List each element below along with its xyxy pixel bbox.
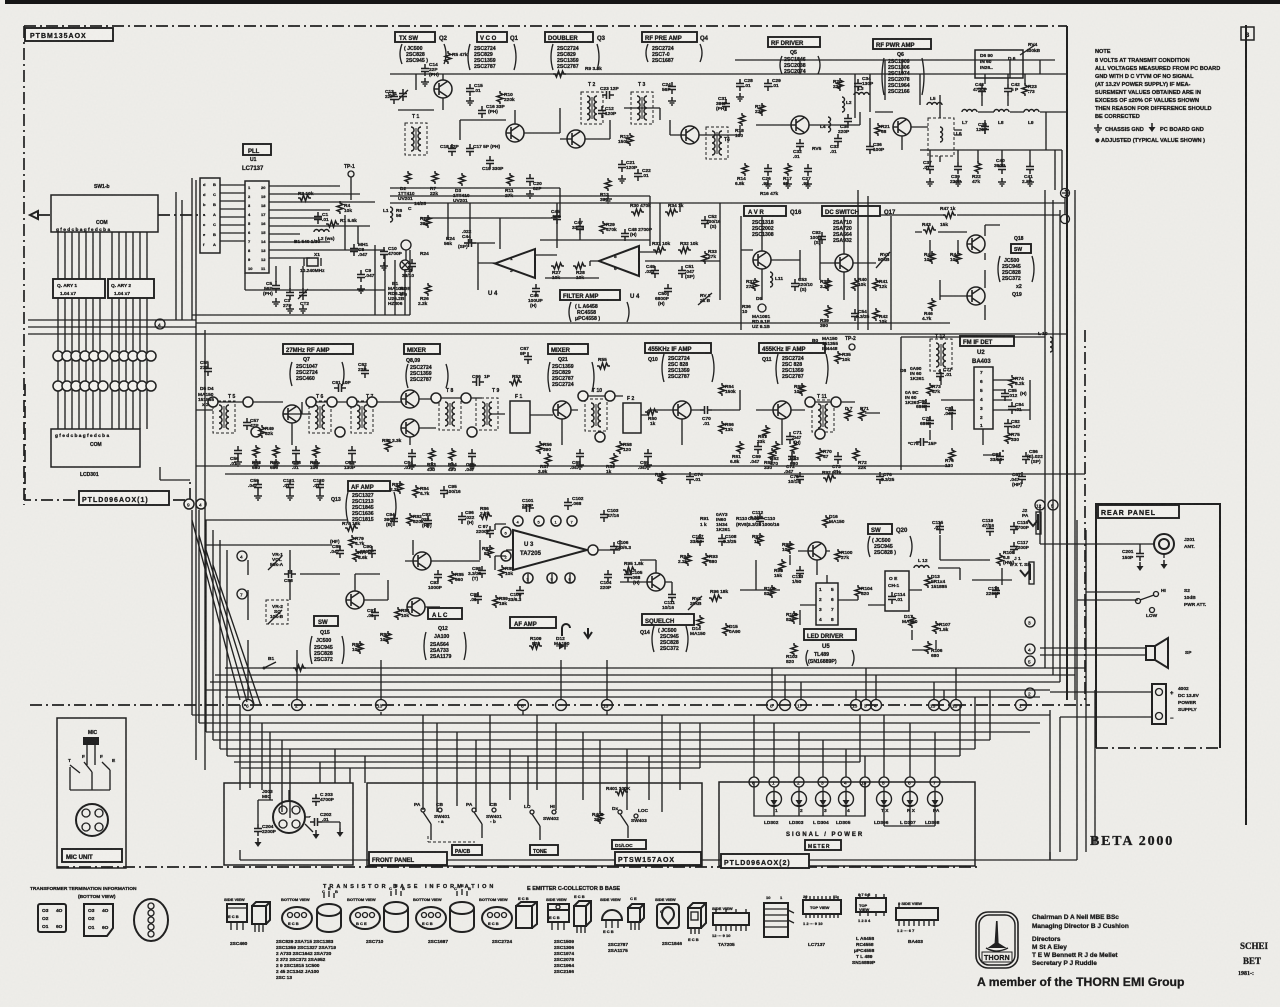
R70 47: [817, 448, 823, 461]
C22 .01: [634, 169, 642, 181]
C204 2200P: [254, 824, 262, 836]
U3 pin 3: [523, 573, 533, 583]
transistor Q17: [835, 254, 853, 272]
SW401-a switch: [423, 812, 431, 840]
R60 1k: [645, 409, 658, 415]
MIXER label box: [404, 344, 440, 354]
transformer T10: [585, 399, 607, 431]
C83 33/16: [996, 452, 1004, 464]
R43 15k: [923, 227, 936, 233]
transformer T2: [581, 92, 603, 124]
ground row top: [421, 78, 429, 86]
L11 coil: [770, 272, 773, 287]
S2 labels: [1184, 588, 1206, 608]
D7 diode: [845, 408, 851, 421]
transformer T9: [476, 398, 498, 430]
R58 120: [617, 441, 623, 454]
FILTER AMP parts list: [575, 304, 600, 322]
D12 MA150: [556, 643, 568, 650]
MIC UNIT label box: [62, 849, 122, 862]
C85 .012: [1001, 389, 1009, 401]
C49 .033: [651, 266, 659, 278]
U3 pin 1: [551, 516, 561, 526]
C52 100/16: [701, 216, 709, 228]
D15 0A90: [723, 623, 729, 636]
wires to right bus: [760, 197, 1065, 215]
C103 47/16: [600, 510, 608, 522]
SW1-b section line: [191, 178, 193, 320]
C55 27P: [204, 364, 212, 376]
C88 cap: [284, 570, 296, 578]
mic switch contacts: [68, 754, 116, 764]
J003 connector circle: [273, 801, 305, 833]
L2 coil: [314, 230, 329, 233]
IC U2 body: [974, 367, 993, 429]
RF PWR AMP stage label box: [873, 39, 931, 49]
node 5b circle: [1048, 500, 1058, 510]
C31 390P: [722, 99, 730, 111]
R1 5.6k: [326, 221, 339, 227]
pkg DIP16 side: [713, 913, 749, 925]
R107 1.5k: [933, 621, 939, 634]
pkg TO220 3d: [574, 901, 591, 926]
bus node 13c: [851, 700, 862, 711]
R402 39k: [597, 811, 603, 824]
mic connector circle: [76, 804, 108, 836]
J003 connector box: [224, 783, 353, 865]
pkg can 3: [450, 902, 474, 914]
C34 130P: [854, 79, 862, 91]
C14 22P: [421, 64, 429, 76]
af strip wiring: [205, 520, 1012, 650]
R26 2.2k: [425, 283, 431, 296]
L12 coil: [914, 566, 929, 569]
U3 pin 2: [501, 551, 511, 561]
C67 9P: [524, 352, 532, 364]
filter amp wiring: [464, 203, 720, 300]
U3 pin 4: [513, 516, 523, 526]
VR-1 volume pot: [270, 552, 284, 568]
S2 switch arm: [1140, 595, 1154, 600]
transistor Q21: [553, 401, 571, 419]
TX SW parts list: [404, 46, 428, 64]
LED LD306: [877, 792, 892, 807]
sheet corner box B: [1241, 27, 1254, 40]
TX SW stage label box: [395, 32, 435, 42]
C114 .01: [888, 592, 896, 604]
C99 .01: [474, 592, 482, 604]
transistor Q8: [401, 390, 419, 408]
R90 47: [659, 471, 665, 484]
C118 2200P: [992, 586, 1000, 598]
R82 820k: [407, 513, 413, 526]
C5 56P: [272, 281, 280, 293]
C47 33/16: [576, 222, 584, 234]
PLL input connector box: [200, 178, 220, 253]
C80 680P: [922, 399, 930, 411]
C73 .01: [834, 452, 842, 464]
L5 coil: [927, 103, 942, 106]
SW401-b switch: [474, 812, 482, 838]
harness fan diagonals: [192, 520, 261, 706]
R64 150k: [719, 383, 725, 396]
R66 13k: [719, 421, 725, 434]
pin 10 xfmr: [461, 393, 471, 403]
PLL label box: [243, 144, 271, 155]
L10 coil right: [1050, 337, 1053, 352]
microphone element: [83, 737, 99, 745]
C106 220/6.3: [610, 542, 618, 554]
jack stem: [1130, 544, 1164, 558]
j003 grounds: [255, 838, 262, 847]
Q21 parts list: [552, 357, 574, 388]
transformer T12: [930, 339, 952, 371]
Q10 parts list: [648, 356, 690, 380]
FRONT PANEL box: [367, 783, 702, 866]
RF DRIVER stage label box: [768, 37, 820, 47]
C42 5P: [1004, 84, 1012, 96]
SW label small box: [1011, 244, 1031, 253]
C46 100UP: [532, 284, 540, 296]
R22 47k: [975, 161, 981, 174]
led position labels: [775, 808, 940, 814]
wire harness horizontals: [192, 715, 1050, 768]
C8 .047: [350, 244, 358, 256]
CT1 trimmer: [398, 90, 408, 100]
pkg 2SC460 3d: [252, 902, 270, 924]
C108 3.3/25: [718, 534, 726, 546]
FRONT PANEL label box: [369, 852, 447, 865]
C91 .01: [371, 608, 379, 620]
C1 .01: [314, 212, 322, 224]
R23: [1022, 83, 1028, 96]
C70 .01: [700, 406, 712, 414]
crystal X1: [307, 258, 318, 266]
R98 15k: [779, 559, 785, 572]
VCO stage label box: [477, 32, 507, 42]
meter node 3: [818, 777, 828, 787]
Q15 parts list: [314, 630, 333, 663]
R52 3.3k: [385, 439, 391, 452]
power supply labels: [1178, 686, 1200, 713]
R94 2.2k: [685, 553, 691, 566]
D16 MA150: [823, 515, 829, 528]
L3 coil: [854, 93, 869, 96]
C111 10/16: [668, 590, 676, 602]
right bus connector node a: [1061, 189, 1070, 198]
node circle left a: [237, 551, 247, 561]
SW1-b switch box: [51, 195, 158, 232]
AVR label box: [744, 206, 786, 216]
R20 220: [837, 78, 843, 91]
j003 wiring: [258, 790, 340, 832]
C119 47/16: [986, 524, 994, 536]
harness verticals front panel: [423, 715, 680, 812]
DOUBLER parts list: [557, 46, 579, 70]
D9 zener: [758, 304, 766, 312]
D17 MA150: [909, 615, 915, 628]
meter node 7: [930, 777, 940, 787]
xfmr bottom view oval: [134, 899, 168, 941]
transistor Q3: [567, 130, 585, 148]
R4 10k: [337, 201, 343, 214]
ALC label box: [428, 608, 462, 619]
bus drops from circuits: [248, 560, 956, 715]
C29 .01: [764, 79, 772, 91]
B0 MA150 labels: [812, 336, 838, 352]
bus node 4: [871, 700, 882, 711]
Q.ARY 1 array box: [53, 279, 105, 298]
pin 8 xfmr: [335, 427, 345, 437]
bus node 10: [951, 700, 962, 711]
main schematic frame top edge: [24, 25, 1067, 27]
D14 MA150: [697, 615, 703, 628]
Q12 parts list: [430, 626, 451, 660]
R34 1k: [665, 209, 678, 215]
meter node 4: [841, 777, 851, 787]
Q7 parts list: [296, 357, 318, 382]
C75 10/16: [796, 472, 804, 484]
C57 47P: [243, 418, 251, 430]
scan top black bar: [5, 0, 1280, 4]
upper rail wire: [735, 59, 1055, 61]
pkg can 2: [384, 902, 408, 914]
wire drop from lcd area: [160, 467, 190, 480]
R38 3.3k: [825, 278, 831, 291]
DIP8 parts list: [852, 936, 876, 966]
C64 .01: [408, 449, 416, 461]
node 4 mid: [155, 319, 165, 329]
R39 390: [825, 305, 831, 318]
transformer T3: [631, 92, 653, 124]
C115 .01: [936, 522, 944, 534]
SW label box Q15: [314, 616, 338, 626]
dash-dot wire to SW1-b: [38, 214, 200, 216]
transistor Q11: [773, 401, 791, 419]
PTLD096AOX(1) board label box: [79, 491, 169, 505]
left section line 2: [176, 192, 182, 320]
IC U5 body: [816, 583, 838, 625]
R72 22k: [853, 448, 859, 461]
C23 12P: [602, 91, 614, 99]
R67 33k: [763, 425, 769, 438]
node 9: [184, 499, 194, 509]
R105 6.8: [997, 553, 1003, 566]
R32 10k: [678, 247, 691, 253]
pll section bottom rail: [192, 215, 410, 315]
R88 10k: [499, 565, 505, 578]
Q20 parts list: [872, 538, 896, 556]
DC SWITCH parts list: [833, 220, 852, 244]
D6 detector box: [975, 50, 1023, 78]
C94 390P: [390, 514, 398, 526]
bus node 15: [929, 700, 940, 711]
R2 1TT410: [405, 171, 411, 184]
L9 coil: [1024, 110, 1039, 113]
C20 82P: [526, 174, 534, 186]
C19 330P: [486, 156, 494, 168]
dashed link sw401: [428, 836, 475, 842]
R11 27k: [507, 173, 513, 186]
RF PRE AMP parts list: [652, 46, 674, 64]
bus node 6: [243, 700, 254, 711]
if strip wiring: [196, 390, 880, 445]
R56 390: [537, 441, 543, 454]
transformer T6: [309, 401, 331, 433]
transistor Q19: [967, 287, 985, 305]
C72 .047: [788, 452, 796, 464]
top row wiring: [398, 60, 1067, 140]
transformer T8: [439, 398, 461, 430]
connector pin row 1: [53, 351, 156, 361]
C45 .033: [553, 212, 561, 224]
R89 19k: [493, 595, 499, 608]
C69b .047: [754, 442, 762, 454]
C59 .047: [254, 480, 262, 492]
R28 10k: [573, 263, 586, 269]
LED LD308: [928, 792, 943, 807]
Q11 parts list: [762, 356, 804, 380]
antenna grounds: [1137, 562, 1144, 571]
C97 2200P: [486, 526, 494, 538]
meter node 6: [749, 777, 759, 787]
R29 470k: [600, 221, 606, 234]
pin 15 xfmr: [805, 397, 815, 407]
harness verticals meter: [754, 715, 935, 777]
C56 .01: [234, 446, 242, 458]
Q14 parts list: [640, 628, 679, 652]
pin 2 xfmr: [243, 397, 253, 407]
D5 D4 labels: [198, 386, 214, 408]
bottom dash-dot rail: [57, 866, 980, 868]
U3 pin 6: [501, 527, 511, 537]
R93b 1.8k: [703, 553, 709, 566]
bus node dark: [556, 700, 567, 711]
R106 680: [925, 641, 931, 654]
L7 coil: [962, 110, 977, 113]
C38 120P: [981, 122, 989, 134]
C100 33/6.3: [516, 586, 524, 598]
pin 13 xfmr: [605, 391, 615, 401]
R37 270: [752, 278, 758, 291]
R60b 10k: [357, 641, 363, 654]
R42 10k: [873, 308, 879, 321]
right bus connector node b: [1061, 215, 1070, 224]
RF DRIVER parts list: [784, 50, 806, 75]
pll ground cluster: [272, 298, 280, 306]
connector pin row 2: [53, 381, 156, 391]
R84 4.7k: [413, 485, 419, 498]
right inner frame line 2: [1074, 190, 1076, 700]
R9 3.3k: [553, 71, 566, 77]
C28 .01: [736, 79, 744, 91]
2SC829 family list: [276, 939, 336, 981]
R100 27k: [835, 549, 841, 562]
455KHZ IF AMP label box 2: [759, 343, 825, 353]
pin 16 xfmr: [831, 397, 841, 407]
R63 680: [791, 441, 797, 454]
SQUELCH label box: [642, 614, 694, 625]
bus node 8: [767, 700, 778, 711]
pin 3 xfmr: [251, 427, 261, 437]
C63 130P: [348, 446, 356, 458]
transformer T4: [706, 127, 728, 159]
C36 100P: [866, 142, 874, 154]
R13 390: [605, 178, 611, 191]
C112 3.3/25: [756, 514, 764, 526]
bus node 1: [939, 700, 950, 711]
R61 6.8k: [737, 441, 743, 454]
C105 .068: [624, 570, 632, 582]
meter node 2: [794, 777, 804, 787]
LED LD304: [816, 792, 831, 807]
R401 100K: [615, 789, 628, 795]
THORN logo thorn symbol: [988, 921, 1007, 948]
METER box: [719, 782, 975, 866]
transformer T7: [351, 401, 373, 433]
pin 12 xfmr: [578, 391, 588, 401]
IC U1 body: [245, 181, 269, 273]
R101 820: [769, 585, 775, 598]
LED LD302: [767, 792, 782, 807]
B1 varicap circle: [401, 240, 411, 250]
Q13 parts list: [331, 493, 374, 523]
C16 33P: [478, 106, 486, 118]
R92 2.7k: [823, 475, 836, 481]
LED DRIVER label box: [804, 629, 856, 640]
R87 82: [487, 545, 493, 558]
pin 11 xfmr: [467, 427, 477, 437]
harness verticals left: [192, 510, 290, 818]
pc board gnd legend symbol: [1149, 123, 1156, 132]
R18 100: [739, 113, 745, 126]
C24 56P: [668, 82, 676, 94]
bus node 13: [376, 700, 387, 711]
C53 220/10: [791, 279, 799, 291]
front panel drop x335: [335, 749, 365, 783]
C71 .047: [786, 432, 794, 444]
C15 .01: [466, 84, 474, 96]
C92 100/4: [818, 232, 826, 244]
bus node 17: [796, 700, 807, 711]
pkg SIP ribbed: [764, 903, 788, 937]
meter led stems: [774, 787, 935, 826]
C96 .022: [458, 512, 466, 524]
VR-2 squelch pot: [270, 604, 284, 620]
U5 parts list: [808, 652, 837, 665]
mic switch lines: [70, 762, 110, 790]
R30 470k: [631, 209, 644, 215]
C74 .01: [686, 472, 694, 484]
left horizontal wires: [28, 320, 205, 334]
455KHZ IF AMP label box: [645, 343, 711, 353]
node 5 circle: [1025, 656, 1035, 666]
SW Q20 box CH-1: [885, 571, 909, 611]
L1 coil: [390, 207, 393, 222]
R83 2.2k: [397, 481, 403, 494]
C95 100/16: [440, 486, 448, 498]
R31 10k: [653, 247, 666, 253]
Q.ARY 2 array box: [108, 279, 154, 298]
transformer T1: [405, 123, 427, 155]
main dash-dot bus: [30, 704, 1090, 706]
C201 150P: [1136, 549, 1144, 561]
R62 470: [773, 441, 779, 454]
R19 270: [759, 103, 765, 116]
C98 3.3/25: [478, 566, 486, 578]
LCD301 display box: [51, 429, 140, 467]
bus node 16: [1016, 700, 1027, 711]
